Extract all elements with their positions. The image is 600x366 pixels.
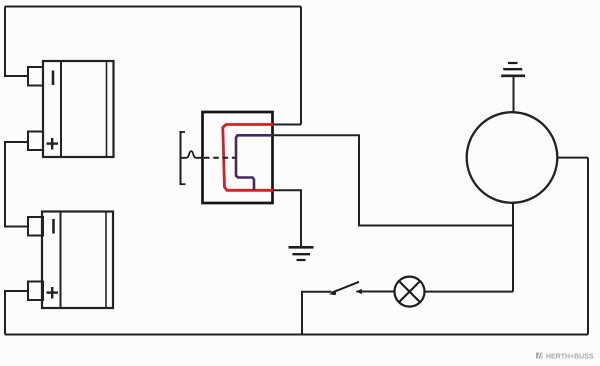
wire switch to lamp with arrowhead (357, 291, 395, 293)
ignition starter switch box (203, 112, 273, 203)
wire top bus down to ignition switch terminal (300, 7, 302, 125)
key symbol squiggle (182, 151, 204, 158)
indicator lamp (395, 277, 425, 307)
wire ground stem to motor (513, 77, 515, 113)
wire battery G1 negative to top bus (5, 7, 28, 77)
wire battery G2 positive to bottom bus (5, 291, 28, 335)
key symbol bracket (180, 131, 186, 185)
wire bottom bus (5, 334, 588, 336)
wire ignition switch top exit (272, 124, 301, 126)
wire lamp to motor stem node (425, 291, 514, 293)
battery G1 (28, 61, 114, 157)
ground below ignition switch (289, 247, 314, 260)
wire battery G1 positive to battery G2 negative (5, 142, 28, 227)
wire switch branch from bottom bus (302, 292, 331, 335)
wire motor bottom stem to lamp line (512, 203, 514, 292)
ground above motor (501, 63, 525, 76)
ignition switch contact path 30-50 (red) (223, 125, 274, 191)
arrowhead at switch side (356, 289, 362, 294)
wire right edge riser (587, 158, 589, 335)
wire motor to right edge (558, 157, 589, 159)
wire ignition switch middle exit to node (272, 135, 513, 225)
wire top bus (5, 6, 301, 8)
wire ignition switch bottom exit to ground (272, 190, 301, 246)
battery G2 (28, 212, 113, 309)
actuation dashed line (204, 157, 235, 159)
starter motor circle (467, 112, 558, 203)
switch blade arrowhead (329, 289, 337, 295)
logo icon (536, 352, 543, 358)
switch blade (332, 282, 360, 293)
ignition switch contact path 15 (purple) (236, 135, 274, 190)
svg-text:HERTH+BUSS: HERTH+BUSS (546, 352, 594, 361)
